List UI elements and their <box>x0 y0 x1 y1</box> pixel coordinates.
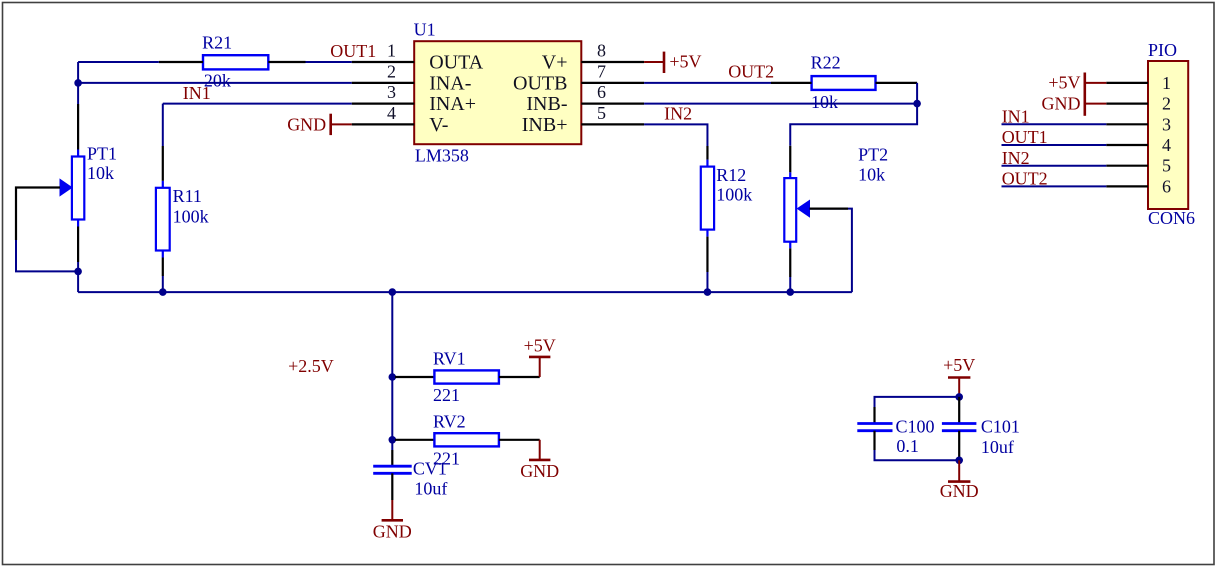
wire R22 to PT2 vertical <box>790 83 917 146</box>
svg-text:GND: GND <box>520 461 559 481</box>
wire ground bus <box>78 291 852 293</box>
CON6 pin 5 lead <box>1106 165 1148 167</box>
svg-text:0.1: 0.1 <box>896 436 919 456</box>
wire C100 C101 bottom <box>875 450 960 460</box>
capacitor C100 bottom plate <box>857 429 892 432</box>
wire R12 to bus <box>706 272 708 292</box>
svg-text:OUT2: OUT2 <box>1002 169 1048 189</box>
svg-text:10k: 10k <box>87 163 114 183</box>
node junction C101 top <box>955 393 963 401</box>
PT2 top lead <box>789 146 791 173</box>
R21 right lead <box>268 61 305 63</box>
svg-text:100k: 100k <box>173 206 209 226</box>
C100 upper lead <box>873 407 875 424</box>
wire IN2 net <box>644 124 707 146</box>
power port +5V at CON6 wire <box>1085 82 1107 84</box>
power port GND at C101 bar <box>948 480 970 483</box>
wire IN2 stub at CON6 <box>1002 165 1107 167</box>
svg-text:7: 7 <box>597 61 606 81</box>
U1 pin 3 lead <box>352 102 415 104</box>
svg-text:3: 3 <box>1162 114 1171 134</box>
wire IN1 horizontal <box>163 103 352 105</box>
power port bar at CON6 <box>1084 73 1087 116</box>
power port GND at U1 pin4 bar <box>329 114 332 135</box>
U1 pin 6 lead <box>581 102 644 104</box>
svg-text:10k: 10k <box>811 92 838 112</box>
wire IN1 stub at CON6 <box>1002 123 1107 125</box>
resistor R12 body <box>701 167 714 230</box>
U1 pin 1 lead <box>352 61 415 63</box>
capacitor CV1 bottom plate <box>373 472 412 475</box>
node junction C101 bottom <box>955 457 963 465</box>
svg-text:6: 6 <box>1162 176 1171 196</box>
PT2 wiper wire <box>810 209 852 293</box>
svg-text:R11: R11 <box>173 186 202 206</box>
RV1 left lead <box>395 376 434 378</box>
wire R11 to bus <box>162 276 164 292</box>
svg-text:1: 1 <box>387 40 396 60</box>
svg-text:C100: C100 <box>896 416 935 436</box>
U1 pin 4 lead <box>352 123 415 125</box>
capacitor CV1 top plate <box>373 465 412 468</box>
CON6 pin 3 lead <box>1106 123 1148 125</box>
PT2 top stub <box>789 172 791 178</box>
PT1 wiper loop wire navy <box>16 240 78 271</box>
svg-text:RV1: RV1 <box>433 349 466 369</box>
wire center vertical +2.5V <box>391 292 393 450</box>
R11 bottom stub <box>162 251 164 258</box>
resistor RV1 body <box>434 370 499 383</box>
power port GND at C101 stem <box>958 460 960 481</box>
wire OUT2 stub at CON6 <box>1002 185 1107 187</box>
svg-text:PIO: PIO <box>1148 40 1177 60</box>
U1 pin 7 lead <box>581 82 644 84</box>
node junction bus center <box>389 288 397 296</box>
wire left vertical upper <box>77 62 79 104</box>
svg-text:GND: GND <box>1042 94 1081 114</box>
svg-text:INB-: INB- <box>526 93 567 115</box>
R12 bottom lead <box>706 237 708 272</box>
resistor R11 body <box>156 188 170 251</box>
R22 left lead <box>771 82 812 84</box>
CON6 pin 2 lead <box>1106 102 1148 104</box>
svg-text:221: 221 <box>433 385 460 405</box>
capacitor C101 bottom plate <box>942 429 977 432</box>
svg-text:R21: R21 <box>202 33 232 53</box>
svg-text:R12: R12 <box>716 165 746 185</box>
svg-text:PT1: PT1 <box>87 144 117 164</box>
PT2 wiper arrow <box>798 200 810 216</box>
wire OUT1 net right <box>306 61 352 63</box>
power port GND at CV1 stem <box>391 500 393 520</box>
svg-text:+5V: +5V <box>524 336 556 356</box>
svg-text:OUTA: OUTA <box>429 52 484 74</box>
svg-text:+2.5V: +2.5V <box>288 356 334 376</box>
potentiometer PT2 body <box>784 178 796 242</box>
R11 bottom lead <box>162 258 164 277</box>
R11 top stub <box>162 181 164 188</box>
PT1 bottom lead <box>77 227 79 263</box>
wire OUT1 net left <box>78 61 159 63</box>
svg-text:5: 5 <box>597 103 606 123</box>
R12 top lead <box>706 146 708 160</box>
C101 upper lead <box>958 397 960 424</box>
CON6 pin 4 lead <box>1106 144 1148 146</box>
svg-text:OUT2: OUT2 <box>728 62 774 82</box>
svg-text:CON6: CON6 <box>1148 208 1195 228</box>
CON6 pin 6 lead <box>1106 185 1148 187</box>
potentiometer PT1 body <box>72 157 84 220</box>
wire IN1 vertical <box>162 104 164 146</box>
R12 bottom stub <box>706 230 708 237</box>
power port +5V at RV1 stem <box>539 357 541 377</box>
svg-text:GND: GND <box>940 481 979 501</box>
wire PT1 to bus <box>77 262 79 292</box>
svg-text:GND: GND <box>287 114 326 134</box>
svg-text:R22: R22 <box>811 52 841 72</box>
svg-text:2: 2 <box>387 61 396 81</box>
svg-text:IN1: IN1 <box>1002 107 1030 127</box>
svg-text:+5V: +5V <box>943 355 975 375</box>
R21 left lead <box>159 61 203 63</box>
resistor RV2 body <box>434 433 499 446</box>
svg-text:1: 1 <box>1162 73 1171 93</box>
power port GND at RV2 bar <box>529 459 550 462</box>
capacitor CV1 lead upper <box>391 450 393 466</box>
svg-text:10uf: 10uf <box>414 478 447 498</box>
svg-text:4: 4 <box>1162 135 1171 155</box>
PT2 bottom lead <box>789 248 791 277</box>
node junction pin2 <box>74 79 82 87</box>
PT1 wiper arrow <box>60 179 72 195</box>
svg-text:10k: 10k <box>858 165 885 185</box>
node junction RV2 <box>389 436 397 444</box>
PT1 bottom stub <box>77 220 79 227</box>
PT1 wiper loop wire black <box>16 188 60 241</box>
resistor R21 body <box>203 55 268 69</box>
PT2 wiper wire black part <box>810 208 849 210</box>
RV1 right lead <box>499 376 540 378</box>
R22 right lead <box>876 82 918 84</box>
svg-text:INA-: INA- <box>429 73 471 95</box>
svg-text:C101: C101 <box>981 416 1020 436</box>
svg-text:INB+: INB+ <box>522 114 568 136</box>
op-amp U1 body <box>414 41 581 144</box>
svg-text:IN1: IN1 <box>183 83 211 103</box>
svg-text:OUT1: OUT1 <box>330 41 376 61</box>
node junction R12 bus <box>704 288 712 296</box>
svg-text:U1: U1 <box>414 20 436 40</box>
power port +5V at U1 pin8 wire <box>644 61 664 63</box>
R12 top stub <box>706 160 708 167</box>
wire C100 C101 top <box>875 397 960 407</box>
node junction RV1 <box>389 373 397 381</box>
C100 lower lead <box>873 431 875 450</box>
wire INB- net <box>644 103 917 105</box>
wire OUT1 stub at CON6 <box>1002 144 1107 146</box>
svg-text:5: 5 <box>1162 156 1171 176</box>
power port +5V at C101 bar <box>948 376 970 379</box>
svg-text:3: 3 <box>387 82 396 102</box>
node junction PT1 bottom <box>74 268 82 276</box>
wire PT2 to bus <box>789 277 791 292</box>
wire OUT2 net <box>644 82 771 84</box>
power port +5V at U1 pin8 bar <box>663 52 666 73</box>
power port +5V at RV1 bar <box>529 356 550 359</box>
capacitor C101 top plate <box>942 422 977 425</box>
svg-text:OUTB: OUTB <box>513 73 567 95</box>
svg-text:6: 6 <box>597 82 606 102</box>
U1 pin 2 lead <box>352 82 415 84</box>
capacitor CV1 lead lower <box>391 473 393 500</box>
wire INA- net <box>78 82 352 84</box>
svg-text:IN2: IN2 <box>1002 148 1030 168</box>
svg-text:100k: 100k <box>716 185 752 205</box>
svg-text:PT2: PT2 <box>858 144 888 164</box>
svg-text:OUT1: OUT1 <box>1002 127 1048 147</box>
capacitor C100 top plate <box>857 422 892 425</box>
power port GND at RV2 stem <box>539 440 541 460</box>
svg-text:V+: V+ <box>542 52 568 74</box>
PT1 top lead <box>77 104 79 150</box>
RV2 right lead <box>499 439 540 441</box>
PT2 bottom stub <box>789 242 791 249</box>
U1 pin 5 lead <box>581 123 644 125</box>
svg-text:IN2: IN2 <box>664 104 692 124</box>
CON6 pin 1 lead <box>1106 82 1148 84</box>
connector CON6 body <box>1148 61 1188 209</box>
U1 pin 8 lead <box>581 61 644 63</box>
svg-text:LM358: LM358 <box>415 146 469 166</box>
PT1 top stub <box>77 150 79 157</box>
svg-text:+5V: +5V <box>1048 73 1080 93</box>
node junction INB- <box>913 100 921 108</box>
svg-text:CV1: CV1 <box>413 459 447 479</box>
svg-text:V-: V- <box>429 114 448 136</box>
svg-text:10uf: 10uf <box>981 437 1014 457</box>
node junction R11 bus <box>159 288 167 296</box>
svg-text:INA+: INA+ <box>429 93 476 115</box>
RV2 left lead <box>395 439 434 441</box>
svg-text:4: 4 <box>387 103 396 123</box>
svg-text:GND: GND <box>373 521 412 541</box>
svg-text:RV2: RV2 <box>433 411 466 431</box>
resistor R22 body <box>812 76 876 90</box>
node junction PT2 bus <box>786 288 794 296</box>
svg-text:8: 8 <box>597 40 606 60</box>
power port GND at CV1 bar <box>382 519 403 522</box>
power port GND at CON6 wire <box>1085 103 1107 105</box>
svg-text:2: 2 <box>1162 94 1171 114</box>
power port +5V at C101 stem <box>958 378 960 397</box>
R11 top lead <box>162 146 164 181</box>
power port GND at U1 pin4 wire <box>331 123 352 125</box>
svg-text:+5V: +5V <box>669 52 701 72</box>
C101 lower lead <box>958 431 960 461</box>
